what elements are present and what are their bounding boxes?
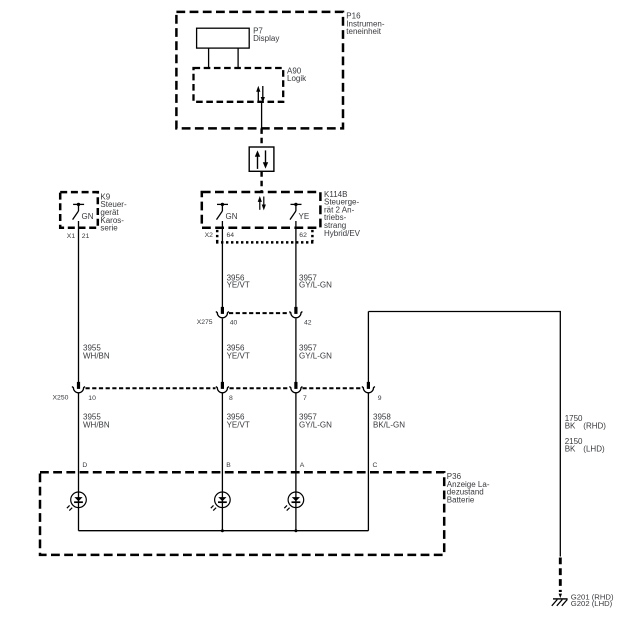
svg-text:BK: BK: [565, 422, 576, 431]
svg-text:62: 62: [299, 232, 307, 239]
svg-text:42: 42: [304, 320, 312, 327]
svg-text:WH/BN: WH/BN: [83, 351, 110, 360]
svg-text:GY/L-GN: GY/L-GN: [299, 281, 332, 290]
svg-text:teneinheit: teneinheit: [346, 27, 381, 36]
svg-text:8: 8: [229, 395, 233, 402]
svg-text:40: 40: [230, 320, 238, 327]
svg-text:Hybrid/EV: Hybrid/EV: [324, 229, 361, 238]
svg-text:GY/L-GN: GY/L-GN: [299, 351, 332, 360]
svg-text:21: 21: [82, 233, 90, 240]
svg-text:X1: X1: [67, 233, 76, 240]
svg-text:BK/L-GN: BK/L-GN: [373, 421, 405, 430]
svg-text:X275: X275: [197, 319, 213, 326]
svg-text:X250: X250: [53, 394, 69, 401]
svg-text:GN: GN: [82, 212, 94, 221]
svg-text:Display: Display: [253, 34, 279, 43]
svg-text:GN: GN: [226, 212, 238, 221]
svg-text:GY/L-GN: GY/L-GN: [299, 421, 332, 430]
svg-text:YE/VT: YE/VT: [227, 421, 250, 430]
svg-text:X2: X2: [205, 232, 214, 239]
svg-text:BK: BK: [565, 444, 576, 453]
svg-text:7: 7: [303, 395, 307, 402]
svg-text:YE/VT: YE/VT: [227, 281, 250, 290]
svg-text:(LHD): (LHD): [583, 444, 605, 453]
svg-text:A: A: [300, 462, 305, 469]
svg-text:D: D: [82, 462, 87, 469]
svg-text:serie: serie: [100, 224, 118, 233]
svg-text:G202 (LHD): G202 (LHD): [571, 599, 613, 608]
svg-text:YE/VT: YE/VT: [227, 351, 250, 360]
svg-text:C: C: [373, 462, 378, 469]
svg-text:9: 9: [378, 395, 382, 402]
svg-text:WH/BN: WH/BN: [83, 421, 110, 430]
svg-text:YE: YE: [299, 212, 310, 221]
svg-text:B: B: [226, 462, 231, 469]
svg-text:10: 10: [88, 395, 96, 402]
svg-text:Batterie: Batterie: [447, 495, 475, 504]
svg-text:(RHD): (RHD): [583, 422, 606, 431]
svg-text:64: 64: [227, 232, 235, 239]
svg-text:Logik: Logik: [287, 74, 307, 83]
